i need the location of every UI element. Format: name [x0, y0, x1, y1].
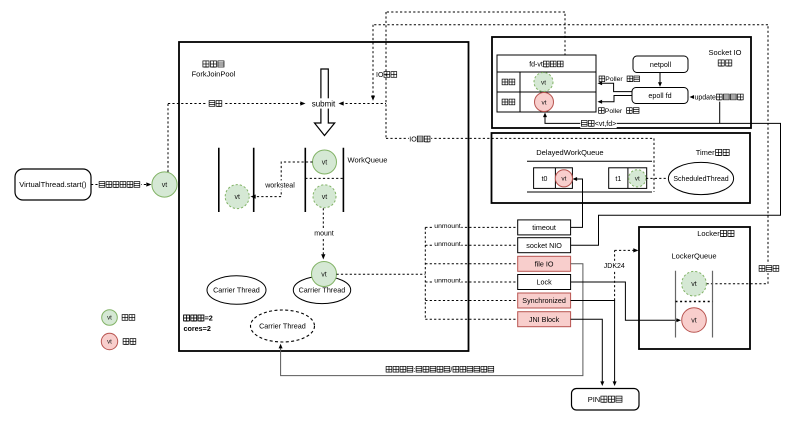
- wire netpoll to epoll: [658, 73, 662, 87]
- wire lock-wakeup dashed: [373, 25, 780, 284]
- svg-text:vt: vt: [541, 79, 546, 86]
- svg-text:WorkQueue: WorkQueue: [348, 156, 388, 165]
- node task t1: [609, 168, 647, 189]
- svg-text:PIN: PIN: [588, 395, 601, 404]
- arrow big down: [315, 69, 335, 136]
- node vt locker-blocked: [682, 308, 707, 333]
- svg-text:Poller: Poller: [605, 108, 623, 115]
- svg-text:JDK24: JDK24: [604, 263, 625, 270]
- node vt t0: [555, 170, 572, 187]
- table fd-vt map: [497, 55, 596, 112]
- box Timer manager: [492, 133, 751, 203]
- node Carrier Thread idle dashed: [251, 310, 315, 342]
- svg-text:vt: vt: [321, 272, 327, 279]
- wire socketNIO register: [543, 113, 781, 246]
- svg-text:vt: vt: [635, 176, 640, 183]
- svg-text:Synchronized: Synchronized: [522, 296, 566, 305]
- wire worksteal dashed: [251, 162, 313, 199]
- node vt queue-bottom: [313, 185, 336, 208]
- wire fileIO compensate: [279, 264, 583, 376]
- wire read poller: [598, 76, 640, 92]
- svg-text:fd-vt: fd-vt: [529, 62, 543, 69]
- svg-text:worksteal: worksteal: [264, 183, 295, 190]
- wire Synchronized to PIN: [571, 301, 617, 387]
- svg-text:socket NIO: socket NIO: [526, 241, 562, 250]
- svg-text::: :: [414, 367, 416, 374]
- wire IO-timeout dashed: [386, 12, 492, 144]
- wire timeout to t0: [571, 177, 583, 227]
- svg-text:ForkJoinPool: ForkJoinPool: [192, 70, 236, 79]
- node block socket NIO: [518, 238, 571, 253]
- wire mount dashed: [314, 208, 335, 259]
- legend vt blocked: [101, 333, 136, 349]
- svg-text:cores=2: cores=2: [184, 324, 211, 333]
- svg-text:DelayedWorkQueue: DelayedWorkQueue: [536, 148, 603, 157]
- svg-text:ScheduledThread: ScheduledThread: [673, 176, 728, 183]
- wire submit right dashed: [339, 101, 387, 105]
- node epoll fd: [632, 88, 688, 104]
- wire IO-timeout inner dashed: [492, 138, 655, 192]
- node PIN pinned-thread: [572, 389, 640, 411]
- svg-text:vt: vt: [322, 160, 328, 167]
- node netpoll: [633, 56, 688, 73]
- node block timeout: [518, 220, 571, 235]
- node block JNI Block: [518, 312, 571, 327]
- label parallelism: [184, 314, 213, 334]
- queue rails left: [219, 148, 254, 212]
- svg-text:vt: vt: [691, 281, 697, 288]
- svg-text:submit: submit: [312, 99, 336, 108]
- wire unmount bus dashed: [337, 221, 518, 319]
- node Carrier Thread 1: [207, 276, 266, 305]
- svg-text:Carrier Thread: Carrier Thread: [299, 286, 346, 295]
- svg-text:LockerQueue: LockerQueue: [672, 252, 717, 261]
- locker divider dotted: [676, 301, 713, 303]
- svg-text:vt: vt: [691, 318, 697, 325]
- node vt queue-top: [313, 150, 337, 174]
- svg-text:VirtualThread.start(): VirtualThread.start(): [19, 180, 87, 189]
- svg-text:Locker: Locker: [697, 229, 720, 238]
- wire update-thread-register: [690, 92, 745, 123]
- node block Synchronized: [518, 293, 571, 308]
- svg-text:Carrier Thread: Carrier Thread: [259, 322, 306, 331]
- svg-text:=2: =2: [205, 314, 213, 323]
- svg-text:t0: t0: [542, 176, 548, 183]
- box ForkJoinPool scheduler: [179, 42, 469, 351]
- svg-text:IO: IO: [409, 137, 417, 144]
- svg-text:JNI Block: JNI Block: [529, 315, 560, 324]
- node vt queue-left: [225, 185, 249, 209]
- svg-text:IO: IO: [376, 72, 384, 79]
- wire submit dashed: [168, 99, 306, 172]
- queue rails locker: [676, 271, 713, 338]
- svg-text:vt: vt: [234, 194, 240, 201]
- svg-text:Carrier Thread: Carrier Thread: [213, 286, 260, 295]
- node vt write-table: [535, 93, 554, 112]
- wire fd-ready dashed: [386, 12, 565, 82]
- node Carrier Thread 2: [293, 276, 350, 303]
- node vt locker-waiting: [682, 271, 707, 296]
- svg-text:epoll fd: epoll fd: [648, 91, 671, 100]
- svg-text:mount: mount: [314, 231, 334, 238]
- svg-text:<vt,fd>: <vt,fd>: [595, 121, 616, 128]
- node task t0: [534, 168, 573, 189]
- svg-text:unmount: unmount: [434, 241, 461, 248]
- queue rails right: [305, 148, 343, 212]
- queue rails delayed: [527, 161, 652, 192]
- svg-text:vt: vt: [107, 339, 112, 346]
- node vt new: [152, 172, 177, 197]
- svg-text:netpoll: netpoll: [650, 60, 672, 69]
- svg-text:Lock: Lock: [537, 278, 553, 287]
- svg-text:/: /: [450, 367, 452, 374]
- svg-text:vt: vt: [322, 194, 328, 201]
- node vt read-table: [534, 73, 553, 92]
- node VirtualThread.start(): [15, 169, 91, 200]
- svg-text:Timer: Timer: [696, 148, 715, 157]
- svg-text:update: update: [695, 95, 717, 102]
- wire JDK24 dashed: [603, 248, 638, 300]
- wire JNI to PIN: [571, 319, 605, 386]
- svg-text:Poller: Poller: [605, 76, 623, 83]
- svg-text:unmount: unmount: [434, 278, 461, 285]
- svg-text:unmount: unmount: [434, 223, 461, 230]
- svg-text:vt: vt: [162, 182, 168, 189]
- svg-text:t1: t1: [615, 176, 621, 183]
- wire IO-ready dashed vertical: [371, 25, 398, 101]
- svg-text:file IO: file IO: [535, 259, 554, 268]
- legend vt ready: [102, 310, 135, 326]
- svg-text:vt: vt: [107, 315, 112, 322]
- wire create-virtual-thread dashed: [91, 180, 152, 189]
- box Locker manager: [639, 227, 750, 349]
- label WorkQueue: [348, 156, 388, 165]
- node vt mounted: [312, 262, 337, 287]
- label submit: [311, 98, 336, 108]
- box Socket IO manager: [492, 37, 751, 128]
- queue divider dashed: [305, 177, 343, 179]
- node block file IO: [518, 256, 571, 271]
- svg-text:timeout: timeout: [532, 223, 556, 232]
- node vt t1: [629, 170, 646, 187]
- node block Lock: [518, 275, 571, 290]
- svg-text:vt: vt: [541, 99, 546, 106]
- label DelayedWorkQueue: [536, 148, 603, 157]
- wire t1 to scheduler dashed: [646, 177, 668, 179]
- svg-text:vt: vt: [561, 176, 566, 183]
- wire Lock to LockerQueue: [571, 282, 681, 322]
- wire write poller: [598, 96, 640, 115]
- svg-text:Socket IO: Socket IO: [709, 48, 742, 57]
- node ScheduledThread: [668, 162, 733, 194]
